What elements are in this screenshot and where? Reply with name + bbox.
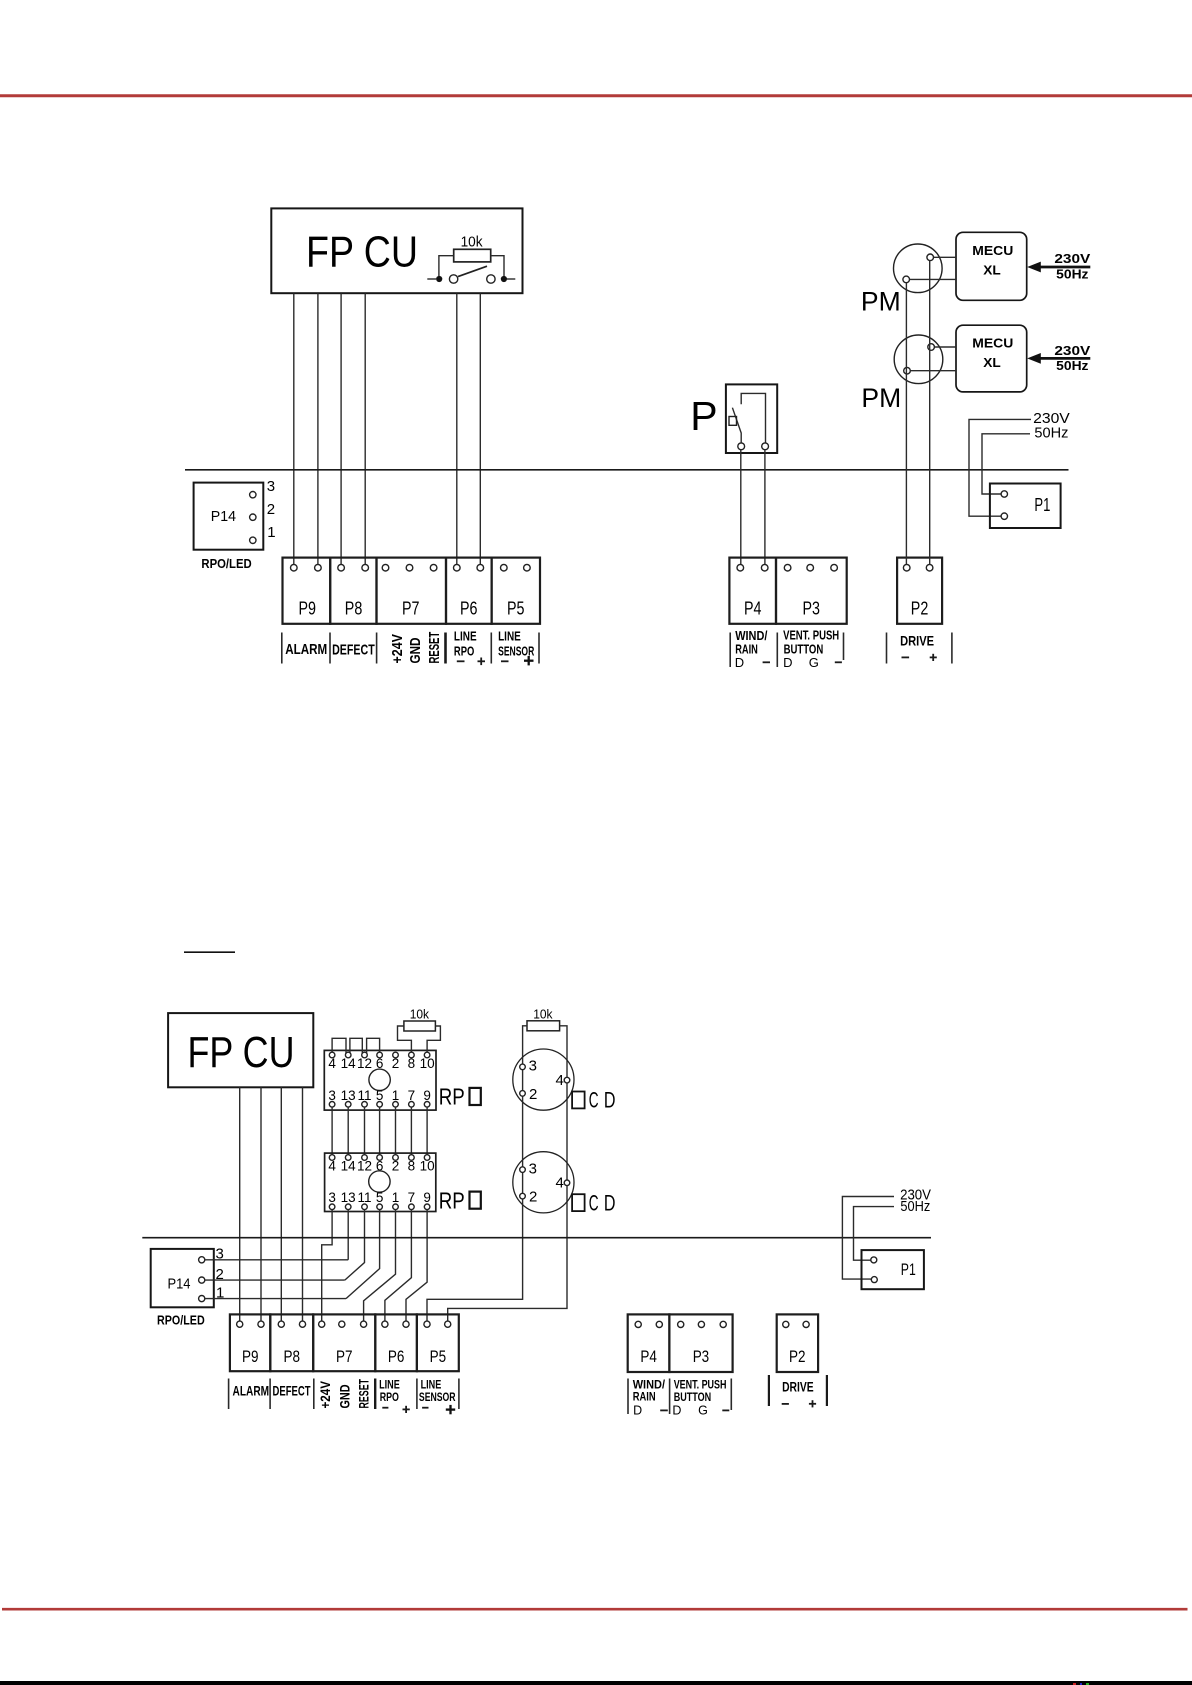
wire P switch to P4 pin2 — [764, 450, 766, 565]
svg-text:2: 2 — [392, 1159, 400, 1174]
plus sign — [524, 660, 534, 662]
minus sign — [501, 660, 509, 662]
svg-text:3: 3 — [529, 1058, 537, 1075]
svg-text:DEFECT: DEFECT — [273, 1383, 311, 1399]
minus sign — [422, 1407, 428, 1409]
svg-text:MECU: MECU — [972, 244, 1013, 258]
svg-text:2: 2 — [392, 1056, 400, 1071]
wire FPCU to P6 pin2 — [479, 293, 481, 564]
svg-text:3: 3 — [328, 1190, 336, 1205]
svg-text:DEFECT: DEFECT — [332, 641, 375, 658]
svg-text:MECU: MECU — [972, 337, 1013, 351]
svg-text:P6: P6 — [460, 599, 478, 619]
svg-text:SENSOR: SENSOR — [419, 1390, 456, 1404]
connector RPO 1 body — [324, 1050, 436, 1110]
wire P14 pin1 line — [205, 1298, 346, 1300]
P7 terminal 1 — [382, 564, 389, 571]
caption underline dash — [184, 951, 235, 953]
svg-text:9: 9 — [423, 1190, 431, 1205]
wire FPCU2 to P9 pin1 — [239, 1087, 241, 1321]
wire RPO2 pin11 to P14 pin2 — [345, 1210, 365, 1281]
pressure switch box P — [726, 384, 777, 453]
wire R3 right lead down to P5 plus — [448, 1026, 567, 1321]
P7 terminal 3 — [430, 564, 437, 571]
terminal block P8 — [330, 558, 376, 624]
junction dot left — [436, 276, 442, 282]
junction dot right — [501, 276, 507, 282]
wire RPO2 pin5 to P14 pin1 — [346, 1210, 380, 1299]
wire motor1 pin a to MECU1 — [934, 256, 957, 258]
svg-text:10k: 10k — [410, 1006, 430, 1021]
wire 230V to P1 lower pin — [969, 419, 1031, 516]
svg-text:P7: P7 — [402, 599, 420, 619]
svg-text:11: 11 — [357, 1088, 371, 1103]
svg-text:D: D — [604, 1190, 616, 1215]
terminal block P4 lower — [628, 1314, 670, 1372]
P2 terminal 1 — [903, 564, 910, 571]
wire switch right stub — [507, 278, 515, 280]
svg-text:PM: PM — [861, 383, 901, 413]
P4 terminals — [635, 1321, 641, 1327]
wire RPO2 pin1 to P7 RESET — [364, 1210, 396, 1321]
minus sign — [835, 661, 842, 663]
svg-text:13: 13 — [341, 1088, 356, 1103]
svg-text:P9: P9 — [299, 599, 317, 619]
RPO1 keying circle — [369, 1069, 390, 1090]
sensor CD 2 — [513, 1152, 574, 1213]
separator — [951, 633, 953, 664]
svg-text:RPO: RPO — [454, 643, 474, 658]
switch S1 contact right — [487, 275, 495, 283]
wire FPCU2 to P9 pin2 — [260, 1087, 262, 1321]
svg-text:C: C — [589, 1190, 599, 1215]
svg-text:230V: 230V — [1033, 411, 1070, 427]
CD2 pin 3 — [520, 1167, 526, 1173]
svg-text:9: 9 — [423, 1088, 431, 1103]
wire resistor left lead — [439, 256, 454, 276]
svg-text:LINE: LINE — [454, 628, 477, 643]
separator — [627, 1379, 629, 1415]
wire motor2 pin b to MECU2 — [910, 370, 956, 372]
bridge pins 4-14 — [332, 1038, 346, 1054]
svg-text:50Hz: 50Hz — [1056, 359, 1088, 373]
minus sign — [382, 1407, 388, 1409]
P5 terminal 1 — [501, 564, 508, 571]
P14 pin 3 — [199, 1257, 205, 1263]
svg-text:RPO/LED: RPO/LED — [201, 557, 251, 571]
P1 pin lower — [1001, 513, 1007, 519]
svg-text:RPO/LED: RPO/LED — [157, 1314, 205, 1328]
terminal block P2 — [897, 558, 942, 624]
motor2 pin b — [904, 367, 911, 374]
svg-text:10k: 10k — [533, 1006, 553, 1021]
wire P14 pin3 line — [205, 1259, 348, 1261]
header rule red — [0, 94, 1192, 97]
P8 terminal 2 — [362, 564, 369, 571]
svg-text:P5: P5 — [430, 1347, 447, 1366]
svg-text:+24V: +24V — [389, 634, 406, 664]
missing glyph box — [470, 1192, 481, 1209]
wire switch left stub — [427, 278, 436, 280]
svg-text:P4: P4 — [744, 599, 762, 619]
wire RPO2 pin3 to P7 +24V — [322, 1210, 332, 1321]
wire 50Hz to P1 upper pin — [854, 1207, 895, 1261]
svg-text:XL: XL — [983, 356, 1001, 370]
minus sign — [457, 660, 465, 662]
P3 terminals — [678, 1321, 684, 1327]
svg-text:P1: P1 — [901, 1260, 916, 1279]
svg-text:7: 7 — [408, 1190, 416, 1205]
svg-text:7: 7 — [408, 1088, 416, 1103]
wire FPCU2 to P8 pin1 — [280, 1087, 282, 1321]
RPO1 bottom pins — [329, 1102, 335, 1108]
svg-text:C: C — [589, 1088, 599, 1113]
wire R2 left lead to pin 8 — [398, 1026, 412, 1055]
footer rule red — [2, 1608, 1188, 1611]
P5 terminal 2 — [524, 564, 531, 571]
svg-text:RESET: RESET — [356, 1379, 372, 1409]
svg-text:P1: P1 — [1034, 495, 1050, 515]
connector P1 lower — [862, 1250, 924, 1289]
svg-text:2: 2 — [529, 1086, 537, 1103]
switch pin left — [738, 443, 745, 450]
terminal block P7 lower — [313, 1314, 375, 1371]
wire motor2 pin a to MECU2 — [934, 346, 956, 348]
svg-text:4: 4 — [556, 1072, 564, 1089]
plus sign — [809, 1403, 816, 1405]
RPO2 bottom pin numbers — [328, 1190, 431, 1205]
svg-text:RP: RP — [439, 1084, 465, 1110]
switch hook wire — [741, 393, 765, 443]
svg-text:P4: P4 — [640, 1347, 657, 1366]
P1 pin lower — [871, 1277, 877, 1283]
svg-text:P2: P2 — [789, 1347, 806, 1366]
CD1 pin 4 — [564, 1077, 570, 1083]
wire FPCU to P9 pin1 — [293, 293, 295, 564]
minus sign — [763, 661, 770, 663]
separator — [228, 1379, 230, 1410]
svg-text:G: G — [698, 1403, 708, 1417]
svg-text:LINE: LINE — [498, 628, 521, 643]
connector P1 — [990, 484, 1061, 529]
svg-text:13: 13 — [341, 1190, 356, 1205]
wire FPCU to P6 pin1 — [456, 293, 458, 564]
separator — [886, 633, 888, 664]
motor1 pin a — [927, 254, 934, 261]
P7 terminal 2 — [406, 564, 413, 571]
P3 terminal 1 — [784, 564, 791, 571]
wires RPO1 to RPO2 pins — [331, 1107, 333, 1155]
svg-text:14: 14 — [341, 1056, 357, 1071]
supply arrow 2 — [1038, 357, 1090, 360]
svg-text:2: 2 — [529, 1189, 537, 1206]
svg-text:P9: P9 — [242, 1347, 259, 1366]
separator — [269, 1379, 271, 1410]
P3 terminal 2 — [807, 564, 814, 571]
separator — [281, 633, 283, 664]
svg-text:50Hz: 50Hz — [1034, 426, 1068, 442]
svg-text:P3: P3 — [693, 1347, 710, 1366]
wire FPCU to P9 pin2 — [317, 293, 319, 564]
separator — [729, 633, 731, 668]
minus sign — [782, 1403, 789, 1405]
plus sign — [930, 656, 937, 658]
svg-text:RP: RP — [439, 1187, 465, 1213]
CD2 pin 4 — [564, 1180, 570, 1186]
terminal block P6 — [446, 558, 492, 624]
RPO1 bottom pin numbers 3 13 11 5 1 7 9 — [328, 1088, 431, 1103]
wire 230V to P1 lower pin — [842, 1197, 894, 1280]
separator — [490, 633, 492, 664]
svg-text:5: 5 — [376, 1190, 384, 1205]
wire FPCU2 to P8 pin2 — [302, 1087, 304, 1321]
svg-text:+24V: +24V — [317, 1380, 333, 1408]
P14 pin 2 — [250, 514, 256, 520]
svg-text:3: 3 — [529, 1160, 537, 1177]
wire motor bus left to P2 — [905, 283, 907, 565]
switch blade — [732, 408, 741, 443]
RPO2 top pins — [329, 1155, 335, 1161]
minus sign — [902, 656, 910, 658]
svg-text:WIND/: WIND/ — [735, 629, 768, 643]
svg-text:P2: P2 — [911, 599, 929, 619]
svg-text:XL: XL — [983, 263, 1001, 277]
P6 terminal 2 — [477, 564, 484, 571]
svg-text:BUTTON: BUTTON — [674, 1390, 712, 1404]
P5 terminals — [424, 1321, 430, 1327]
label CD 1 missing glyph box — [572, 1092, 585, 1109]
sensor CD 1 — [513, 1049, 574, 1110]
P14 pin 3 — [250, 492, 256, 498]
CD2 pin 2 — [520, 1193, 526, 1199]
separator — [730, 1379, 732, 1411]
plus sign — [478, 660, 486, 662]
separator — [669, 1379, 671, 1415]
svg-text:4: 4 — [556, 1175, 564, 1192]
supply arrow 1 — [1038, 266, 1090, 269]
terminal block P5 lower — [417, 1314, 459, 1371]
separator — [826, 1375, 828, 1406]
terminal block P8 lower — [270, 1314, 313, 1371]
P4 terminal 2 — [761, 564, 768, 571]
resistor R2 10k — [404, 1021, 436, 1031]
P1 pin upper — [1001, 491, 1007, 497]
thermal trip symbol — [729, 417, 737, 426]
svg-text:P14: P14 — [211, 508, 236, 525]
connector RPO 2 body — [325, 1153, 436, 1211]
svg-text:230V: 230V — [1054, 344, 1091, 358]
svg-text:G: G — [809, 655, 819, 670]
wire R3 left lead down to P5 minus — [427, 1026, 527, 1321]
svg-text:12: 12 — [357, 1056, 372, 1071]
svg-text:P5: P5 — [507, 599, 525, 619]
svg-text:12: 12 — [357, 1159, 372, 1174]
separator — [374, 1379, 376, 1410]
P14 pin 1 — [199, 1296, 205, 1302]
separator — [458, 1379, 460, 1410]
wire P switch to P4 pin1 — [740, 450, 742, 565]
svg-text:10: 10 — [420, 1056, 435, 1071]
bridge pins 12-6 — [367, 1038, 380, 1054]
wire 50Hz to P1 upper pin — [982, 434, 1030, 494]
terminal block P3 — [776, 558, 847, 624]
motor2 pin a — [928, 344, 935, 351]
svg-text:P14: P14 — [168, 1275, 191, 1292]
plus sign — [403, 1408, 410, 1410]
wire RPO2 pin13 to P14 pin3 — [347, 1210, 349, 1260]
RPO1 top pins — [329, 1052, 335, 1058]
svg-text:DRIVE: DRIVE — [782, 1379, 814, 1394]
svg-text:PM: PM — [861, 287, 901, 317]
svg-text:3: 3 — [267, 478, 275, 495]
motor drive unit MECU XL 2 — [956, 325, 1027, 392]
separator — [416, 1379, 418, 1410]
switch S1 contact left — [449, 275, 457, 283]
P7 terminals — [319, 1321, 325, 1327]
wire RPO2 pin7 to P6 minus — [385, 1210, 412, 1321]
motor1 pin b — [903, 276, 910, 283]
svg-text:2: 2 — [267, 501, 275, 518]
wire FPCU to P8 pin2 — [364, 293, 366, 564]
P14 pin 2 — [199, 1277, 205, 1283]
svg-text:10: 10 — [420, 1159, 435, 1174]
svg-text:GND: GND — [337, 1385, 353, 1409]
svg-text:4: 4 — [328, 1159, 336, 1174]
P2 terminals — [783, 1321, 789, 1327]
wire R2 right lead to pin 10 — [427, 1026, 440, 1055]
svg-text:11: 11 — [357, 1190, 371, 1205]
bridge pins 14-12 — [350, 1038, 362, 1054]
svg-text:ALARM: ALARM — [233, 1382, 270, 1398]
wire FPCU to P8 pin1 — [340, 293, 342, 564]
bus line lower diagram — [142, 1237, 931, 1239]
svg-text:1: 1 — [267, 524, 275, 541]
svg-text:VENT. PUSH: VENT. PUSH — [783, 628, 839, 642]
RPO2 bottom pins — [329, 1204, 335, 1210]
svg-text:RPO: RPO — [380, 1390, 399, 1404]
separator — [444, 633, 447, 664]
separator — [843, 633, 845, 661]
svg-text:5: 5 — [376, 1088, 384, 1103]
svg-text:230V: 230V — [1054, 252, 1091, 266]
svg-text:P6: P6 — [388, 1347, 405, 1366]
P9 terminals — [237, 1321, 243, 1327]
P2 terminal 2 — [926, 564, 933, 571]
control unit U2 FP CU — [168, 1013, 313, 1087]
separator — [776, 633, 778, 668]
P6 terminal 1 — [454, 564, 461, 571]
terminal block P6 lower — [375, 1314, 417, 1371]
svg-text:D: D — [735, 655, 744, 670]
svg-text:50Hz: 50Hz — [1056, 268, 1088, 282]
P1 pin upper — [871, 1257, 877, 1263]
svg-text:P8: P8 — [345, 599, 363, 619]
svg-text:RAIN: RAIN — [633, 1389, 656, 1403]
svg-text:1: 1 — [392, 1190, 400, 1205]
svg-text:P7: P7 — [336, 1347, 353, 1366]
RPO2 keying circle — [369, 1171, 390, 1192]
motor drive unit MECU XL 1 — [956, 232, 1027, 300]
svg-text:P8: P8 — [284, 1347, 301, 1366]
bus line top diagram — [185, 469, 1069, 471]
wire P14 pin2 line — [205, 1279, 345, 1281]
terminal block P3 lower — [669, 1314, 732, 1372]
svg-text:P3: P3 — [803, 599, 821, 619]
terminal block P4 — [729, 558, 776, 624]
wire resistor right lead — [491, 256, 504, 276]
motor PM 1 — [894, 244, 943, 293]
svg-text:14: 14 — [341, 1159, 357, 1174]
bottom black bar — [0, 1681, 1192, 1685]
separator — [313, 1379, 315, 1410]
svg-text:D: D — [672, 1403, 681, 1417]
terminal block P9 — [283, 558, 331, 624]
separator — [329, 633, 331, 664]
terminal block P5 — [492, 558, 540, 624]
connector P14 — [194, 483, 264, 550]
wire motor bus right to P2 — [929, 261, 931, 565]
P6 terminals — [382, 1321, 388, 1327]
svg-text:8: 8 — [408, 1056, 416, 1071]
RPO1 top pin numbers 4 14 12 6 2 8 10 — [328, 1056, 434, 1071]
svg-text:4: 4 — [328, 1056, 336, 1071]
P8 terminal 1 — [338, 564, 345, 571]
terminal block P7 — [377, 558, 447, 624]
svg-text:D: D — [633, 1403, 642, 1417]
P4 terminal 1 — [737, 564, 744, 571]
svg-text:D: D — [604, 1088, 616, 1113]
separator — [538, 633, 540, 664]
wire RPO2 pin9 to P6 plus — [406, 1210, 427, 1321]
control unit U1 FP CU — [271, 208, 522, 293]
minus sign — [722, 1409, 729, 1411]
svg-text:ALARM: ALARM — [285, 641, 327, 658]
svg-text:FP CU: FP CU — [306, 228, 418, 277]
switch pin right — [762, 443, 769, 450]
motor PM 2 — [894, 335, 943, 384]
svg-text:10k: 10k — [461, 234, 484, 250]
P9 terminal 1 — [291, 564, 298, 571]
svg-text:RESET: RESET — [426, 632, 443, 664]
svg-text:50Hz: 50Hz — [900, 1199, 930, 1215]
separator — [768, 1375, 770, 1406]
minus sign — [660, 1409, 668, 1411]
svg-text:D: D — [783, 655, 792, 670]
separator — [376, 633, 378, 664]
wire motor1 pin b to MECU1 — [910, 278, 957, 280]
terminal block P2 lower — [777, 1314, 818, 1372]
svg-text:GND: GND — [407, 637, 424, 663]
svg-text:3: 3 — [328, 1088, 336, 1103]
resistor R3 10k — [527, 1021, 560, 1031]
P14 pin 1 — [250, 537, 256, 543]
svg-text:8: 8 — [408, 1159, 416, 1174]
switch S1 blade — [458, 266, 487, 276]
label CD 2 missing glyph box — [572, 1194, 585, 1211]
svg-text:P: P — [690, 393, 717, 439]
RPO2 top pin numbers — [328, 1159, 434, 1174]
P9 terminal 2 — [315, 564, 322, 571]
plus sign — [446, 1408, 455, 1410]
terminal block P9 lower — [230, 1314, 270, 1371]
connector P14 lower — [151, 1249, 214, 1307]
missing glyph box — [470, 1088, 481, 1105]
svg-text:DRIVE: DRIVE — [900, 632, 934, 648]
resistor R1 10k — [454, 249, 491, 262]
CD1 pin 2 — [520, 1091, 526, 1097]
P8 terminals — [278, 1321, 284, 1327]
P3 terminal 3 — [831, 564, 838, 571]
